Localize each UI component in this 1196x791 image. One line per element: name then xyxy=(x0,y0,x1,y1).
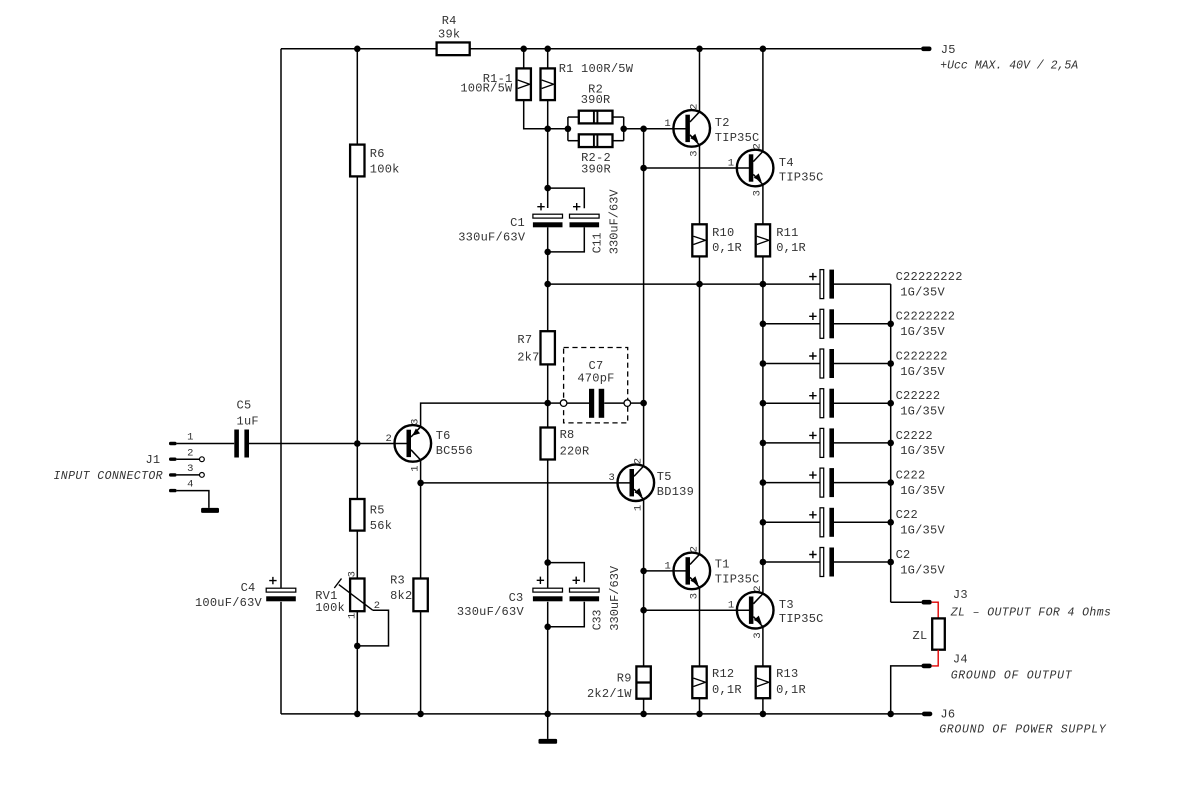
wire T3 emitter to R13 xyxy=(762,627,764,667)
wire J4 to ground rail xyxy=(891,666,922,714)
wire C2222 left lead xyxy=(763,442,820,444)
ZL label xyxy=(913,629,928,643)
svg-text:J1: J1 xyxy=(145,453,160,467)
junction RV1 wiper xyxy=(354,643,361,650)
junction xyxy=(760,711,767,718)
R5 labels xyxy=(370,504,392,533)
wire bus to T5 collector xyxy=(643,129,645,466)
svg-text:INPUT CONNECTOR: INPUT CONNECTOR xyxy=(53,470,163,483)
svg-text:R13: R13 xyxy=(776,667,798,681)
wire R1 top lead xyxy=(547,49,549,69)
svg-text:+Ucc MAX. 40V / 2,5A: +Ucc MAX. 40V / 2,5A xyxy=(940,59,1078,72)
wire C11 bottom branch xyxy=(548,227,585,252)
junction xyxy=(760,440,767,447)
wire T4 emitter to R11 xyxy=(762,184,764,224)
wire C33 bottom branch xyxy=(548,602,585,627)
wire ZL top (red) xyxy=(932,602,938,618)
svg-text:ZL: ZL xyxy=(913,629,928,643)
junction xyxy=(887,479,894,486)
resistor R2-2 xyxy=(579,134,613,147)
junction xyxy=(887,519,894,526)
junction xyxy=(544,46,551,53)
capacitor C22222222 xyxy=(820,270,834,299)
wire left bus lower xyxy=(280,602,282,714)
transistor T1 pin 3 xyxy=(688,593,700,599)
C2222 plus xyxy=(809,432,816,439)
svg-text:C22222222: C22222222 xyxy=(896,270,963,284)
terminal J4 label xyxy=(953,652,968,666)
transistor T2 pin 1 xyxy=(664,118,670,130)
net ZL – OUTPUT FOR 4 Ohms xyxy=(950,607,1112,620)
svg-text:T1: T1 xyxy=(715,557,730,571)
net GROUND OF OUTPUT xyxy=(951,669,1073,682)
wire T2 collector xyxy=(699,49,701,112)
junction xyxy=(640,711,647,718)
resistor R11 xyxy=(756,224,770,256)
wire C2 right lead xyxy=(834,561,891,563)
svg-text:J6: J6 xyxy=(940,708,955,722)
transistor T3 pin 2 xyxy=(752,585,764,591)
junction xyxy=(887,360,894,367)
transistor T2 xyxy=(673,110,710,147)
wire R6-R5 bus xyxy=(356,176,358,499)
wire R2 right bracket xyxy=(623,117,625,141)
wire +Ucc rail right xyxy=(470,48,922,50)
wire C2222 right lead xyxy=(834,442,891,444)
svg-text:C33: C33 xyxy=(591,609,604,630)
svg-text:GROUND OF OUTPUT: GROUND OF OUTPUT xyxy=(951,669,1073,682)
svg-text:330uF/63V: 330uF/63V xyxy=(458,230,526,244)
svg-text:2: 2 xyxy=(187,447,193,459)
junction xyxy=(887,440,894,447)
junction xyxy=(760,479,767,486)
svg-text:R6: R6 xyxy=(370,147,385,161)
junction xyxy=(544,126,551,133)
capacitor C5 xyxy=(234,430,249,458)
svg-text:100uF/63V: 100uF/63V xyxy=(195,596,263,610)
C2 plus xyxy=(809,551,816,558)
wire to T2 base xyxy=(644,128,687,130)
junction C1 top xyxy=(544,185,551,192)
svg-text:R4: R4 xyxy=(442,14,457,28)
svg-text:T4: T4 xyxy=(779,156,794,170)
T2 labels xyxy=(715,116,760,145)
svg-text:56k: 56k xyxy=(370,519,392,533)
wire ZL bottom (red) xyxy=(932,650,938,666)
svg-text:390R: 390R xyxy=(581,93,611,107)
transistor T4 xyxy=(737,150,774,187)
wire RV1 bottom lead xyxy=(356,611,358,714)
wire R6 top lead xyxy=(356,49,358,145)
transistor T2 pin 3 xyxy=(688,150,700,156)
R6 labels xyxy=(370,147,400,176)
capacitor C2222222 xyxy=(820,309,834,338)
svg-text:C222: C222 xyxy=(896,469,926,483)
transistor T4 pin 3 xyxy=(752,190,764,196)
wire right bus xyxy=(890,284,892,602)
T6 labels xyxy=(436,429,473,458)
wire R2-2 right lead xyxy=(613,140,624,142)
C2222 labels xyxy=(896,429,946,458)
svg-text:R12: R12 xyxy=(712,667,734,681)
svg-text:T2: T2 xyxy=(715,116,730,130)
svg-text:2: 2 xyxy=(752,585,764,591)
junction xyxy=(696,281,703,288)
svg-text:1G/35V: 1G/35V xyxy=(900,365,945,379)
capacitor C222222 xyxy=(820,349,834,378)
RV1 pin 2 xyxy=(374,600,380,612)
C1 labels xyxy=(458,216,526,244)
junction xyxy=(760,281,767,288)
svg-text:C4: C4 xyxy=(241,581,256,595)
capacitor C7 dashed box xyxy=(564,348,628,423)
transistor T5 pin 3 xyxy=(608,472,614,484)
junction xyxy=(354,440,361,447)
terminal J3 xyxy=(921,600,931,605)
svg-text:3: 3 xyxy=(688,150,700,156)
junction C7 right xyxy=(640,400,647,407)
resistor R9 xyxy=(636,666,650,698)
wire C22 left lead xyxy=(763,521,820,523)
junction xyxy=(887,559,894,566)
svg-text:1: 1 xyxy=(664,118,670,130)
svg-text:2: 2 xyxy=(632,458,644,464)
svg-text:470pF: 470pF xyxy=(577,372,614,386)
svg-text:1uF: 1uF xyxy=(237,414,259,428)
wire ground stub xyxy=(547,714,549,739)
wire output node row xyxy=(548,283,820,285)
R13 labels xyxy=(776,667,806,697)
junction xyxy=(696,46,703,53)
wire R12 bottom lead xyxy=(699,698,701,714)
J1 pin numbers xyxy=(187,432,193,491)
wire to J3 xyxy=(891,601,922,603)
junction xyxy=(544,281,551,288)
wire T1 emitter to R12 xyxy=(699,587,701,666)
wire R7 to R8 xyxy=(547,364,549,427)
svg-text:C5: C5 xyxy=(237,398,252,412)
C22222222 plus xyxy=(809,273,816,280)
resistor R4 xyxy=(437,42,470,55)
terminal J6 xyxy=(922,712,932,717)
junction node B xyxy=(640,126,647,133)
svg-text:C22: C22 xyxy=(896,508,918,522)
C7 labels xyxy=(577,359,614,386)
svg-text:1: 1 xyxy=(409,465,421,471)
wire to T3 base xyxy=(644,609,750,611)
junction xyxy=(887,400,894,407)
svg-text:1G/35V: 1G/35V xyxy=(900,524,945,538)
C11 plus xyxy=(573,203,580,210)
transistor T3 pin 3 xyxy=(752,632,764,638)
transistor T1 pin 1 xyxy=(664,560,670,572)
capacitor C22 xyxy=(820,508,834,537)
svg-text:0,1R: 0,1R xyxy=(712,241,742,255)
C3 labels xyxy=(457,591,525,619)
terminal J6 label xyxy=(940,708,955,722)
wire C222222 left lead xyxy=(763,363,820,365)
connector J1 pin 3 xyxy=(169,473,177,476)
J1 pin 2 open end xyxy=(200,457,205,462)
capacitor C7 xyxy=(589,389,604,418)
C22222222 labels xyxy=(896,270,963,299)
wire ground rail xyxy=(281,713,922,715)
svg-text:8k2: 8k2 xyxy=(390,589,412,603)
R1 labels xyxy=(559,62,634,76)
transistor T5 pin 2 xyxy=(632,458,644,464)
junction xyxy=(417,711,424,718)
wire R9 bottom lead xyxy=(643,699,645,714)
svg-text:220R: 220R xyxy=(560,445,590,459)
wire to T4 base xyxy=(644,167,750,169)
svg-text:1G/35V: 1G/35V xyxy=(900,444,945,458)
connector J1 pin 2 xyxy=(169,458,177,461)
resistor R1-1 xyxy=(517,68,531,100)
transistor T1 xyxy=(674,553,711,590)
svg-text:390R: 390R xyxy=(581,163,611,177)
T4 labels xyxy=(779,156,824,185)
wire to T1 base xyxy=(644,570,687,572)
transistor T4 pin 2 xyxy=(752,143,764,149)
RV1 labels xyxy=(315,589,345,615)
svg-text:100R/5W: 100R/5W xyxy=(460,82,513,96)
wire R10 to node xyxy=(699,256,701,284)
svg-text:2k2/1W: 2k2/1W xyxy=(587,687,632,701)
svg-text:1: 1 xyxy=(728,600,734,612)
svg-text:2: 2 xyxy=(385,433,391,445)
wire R3 bottom lead xyxy=(420,611,422,714)
transistor T1 pin 2 xyxy=(688,546,700,552)
svg-text:330uF/63V: 330uF/63V xyxy=(608,565,622,631)
junction xyxy=(760,46,767,53)
svg-text:R8: R8 xyxy=(560,428,575,442)
wire R8 to C3 xyxy=(547,460,549,588)
C4 plus xyxy=(269,577,276,584)
wire C7 to bus xyxy=(631,402,644,404)
wire RV1 wiper link xyxy=(357,610,388,646)
R10 labels xyxy=(712,226,742,255)
svg-text:1: 1 xyxy=(187,432,193,444)
C4 labels xyxy=(195,581,263,610)
capacitor C222 xyxy=(820,468,834,497)
junction xyxy=(760,360,767,367)
svg-text:TIP35C: TIP35C xyxy=(715,131,760,145)
C2 labels xyxy=(896,548,946,577)
R7 labels xyxy=(517,333,539,365)
junction xyxy=(354,46,361,53)
svg-text:3: 3 xyxy=(347,571,359,577)
R1-1 labels xyxy=(460,72,513,96)
svg-text:C2222222: C2222222 xyxy=(896,310,956,324)
svg-text:C2: C2 xyxy=(896,548,911,562)
junction xyxy=(354,711,361,718)
resistor R12 xyxy=(692,666,706,698)
net GROUND OF POWER SUPPLY xyxy=(939,724,1107,737)
capacitor C33 xyxy=(570,588,600,601)
load ZL xyxy=(932,618,945,649)
wire T4 collector xyxy=(762,49,764,152)
C2222222 plus xyxy=(809,313,816,320)
wire R1 to C1 xyxy=(547,100,549,208)
svg-text:TIP35C: TIP35C xyxy=(779,612,824,626)
C33 labels xyxy=(591,565,622,631)
svg-text:0,1R: 0,1R xyxy=(776,241,806,255)
wire R11 to node xyxy=(762,256,764,284)
svg-text:2: 2 xyxy=(688,546,700,552)
svg-text:2k7: 2k7 xyxy=(517,351,539,365)
wire C22 right lead xyxy=(834,521,891,523)
svg-text:3: 3 xyxy=(688,593,700,599)
svg-text:100k: 100k xyxy=(315,601,345,615)
junction C33 bottom xyxy=(544,624,551,631)
svg-text:BD139: BD139 xyxy=(657,485,694,499)
capacitor C11 xyxy=(570,214,600,227)
wire C2 left lead xyxy=(763,561,820,563)
R11 labels xyxy=(776,226,806,255)
RV1 pin 3 xyxy=(347,571,359,577)
svg-text:2: 2 xyxy=(688,104,700,110)
C2222222 labels xyxy=(896,310,956,339)
connector J1 pin 1 xyxy=(169,442,177,445)
svg-text:C11: C11 xyxy=(591,232,604,253)
transistor T6 pin 2 xyxy=(385,433,391,445)
svg-text:4: 4 xyxy=(187,479,193,491)
resistor R2 xyxy=(579,111,613,124)
T3 labels xyxy=(779,598,824,626)
J1 pin 3 open end xyxy=(200,473,205,478)
junction T4 base xyxy=(640,165,647,172)
capacitor C2222 xyxy=(820,428,834,457)
resistor R13 xyxy=(756,666,770,698)
junction xyxy=(887,711,894,718)
wire T3 collector xyxy=(762,562,764,594)
R9 labels xyxy=(587,671,632,701)
C222222 labels xyxy=(896,349,948,378)
RV1 pin 1 xyxy=(347,613,359,619)
svg-text:0,1R: 0,1R xyxy=(776,683,806,697)
C222 plus xyxy=(809,471,816,478)
junction T3 base xyxy=(640,607,647,614)
C22 plus xyxy=(809,511,816,518)
svg-text:R1 100R/5W: R1 100R/5W xyxy=(559,62,634,76)
svg-text:R7: R7 xyxy=(517,333,532,347)
wire R13 bottom lead xyxy=(762,698,764,714)
T1 labels xyxy=(715,557,760,586)
svg-text:TIP35C: TIP35C xyxy=(715,573,760,587)
C7 open terminal left xyxy=(560,400,567,407)
svg-text:330uF/63V: 330uF/63V xyxy=(608,189,622,255)
wire T1 collector bus xyxy=(699,284,701,554)
junction xyxy=(760,400,767,407)
terminal J3 label xyxy=(953,588,968,602)
wire R2 left lead xyxy=(568,116,579,118)
svg-text:J4: J4 xyxy=(953,652,968,666)
svg-text:1G/35V: 1G/35V xyxy=(900,325,945,339)
svg-text:1G/35V: 1G/35V xyxy=(900,563,945,577)
junction xyxy=(760,519,767,526)
svg-text:1G/35V: 1G/35V xyxy=(900,285,945,299)
transistor T3 pin 1 xyxy=(728,600,734,612)
ground symbol xyxy=(539,739,558,744)
wire cap bank left bus xyxy=(762,284,764,562)
capacitor C22222 xyxy=(820,389,834,418)
net INPUT CONNECTOR xyxy=(53,470,163,483)
svg-text:R11: R11 xyxy=(776,226,798,240)
svg-text:R9: R9 xyxy=(617,671,632,685)
capacitor C1 xyxy=(533,214,563,227)
connector J1 pin 4 xyxy=(169,489,177,492)
junction xyxy=(887,321,894,328)
svg-text:1: 1 xyxy=(632,505,644,511)
wire C5 to T6 base xyxy=(249,443,407,445)
RV1 wiper arrow xyxy=(334,579,372,611)
svg-text:R3: R3 xyxy=(390,574,405,588)
wire J1.4 to ground xyxy=(177,491,209,508)
resistor R3 xyxy=(413,579,427,612)
C7 open terminal right xyxy=(624,400,631,407)
svg-text:C1: C1 xyxy=(510,216,525,230)
resistor R6 xyxy=(350,145,364,177)
wire T2 emitter to R10 xyxy=(699,145,701,225)
junction xyxy=(620,126,627,133)
wire C22222 left lead xyxy=(763,402,820,404)
wire J1.1 to C5 xyxy=(177,443,235,445)
svg-text:0,1R: 0,1R xyxy=(712,683,742,697)
R4 labels xyxy=(438,14,460,42)
resistor R5 xyxy=(350,499,364,531)
resistor R7 xyxy=(541,331,555,364)
transistor T5 pin 1 xyxy=(632,505,644,511)
wire C222222 right lead xyxy=(834,363,891,365)
wire R2-2 left lead xyxy=(568,140,579,142)
svg-text:T3: T3 xyxy=(779,598,794,612)
transistor T6 xyxy=(395,425,432,462)
wire T6 collector to R3 xyxy=(420,460,422,579)
wire T6 emitter to node xyxy=(421,403,548,427)
wire J1.3 stub xyxy=(177,474,200,476)
svg-text:330uF/63V: 330uF/63V xyxy=(457,605,525,619)
wire C22222222 right lead xyxy=(834,283,891,285)
net +Ucc MAX. 40V / 2,5A xyxy=(940,59,1078,72)
C1 plus xyxy=(537,203,544,210)
svg-text:C3: C3 xyxy=(509,591,524,605)
R3 labels xyxy=(390,574,412,603)
svg-text:1: 1 xyxy=(664,560,670,572)
svg-text:C22222: C22222 xyxy=(896,389,941,403)
wire node to C7 xyxy=(548,402,561,404)
resistor R8 xyxy=(541,428,555,460)
svg-text:C2222: C2222 xyxy=(896,429,933,443)
wire R5-RV1 xyxy=(356,531,358,579)
C222 labels xyxy=(896,469,946,498)
wire C11 top branch xyxy=(548,188,585,208)
C22222 labels xyxy=(896,389,946,418)
svg-text:J3: J3 xyxy=(953,588,968,602)
J1 label xyxy=(145,453,160,467)
wire C33 top branch xyxy=(548,563,585,583)
svg-text:1G/35V: 1G/35V xyxy=(900,405,945,419)
wire C2222222 left lead xyxy=(763,323,820,325)
C5 labels xyxy=(237,398,259,428)
wire C7 right xyxy=(604,402,624,404)
wire to T5 base xyxy=(421,482,630,484)
C11 labels xyxy=(591,189,621,255)
svg-text:T6: T6 xyxy=(436,429,451,443)
wire C222 left lead xyxy=(763,482,820,484)
svg-text:3: 3 xyxy=(752,190,764,196)
junction T1 base xyxy=(640,568,647,575)
R2-2 labels xyxy=(581,151,611,177)
